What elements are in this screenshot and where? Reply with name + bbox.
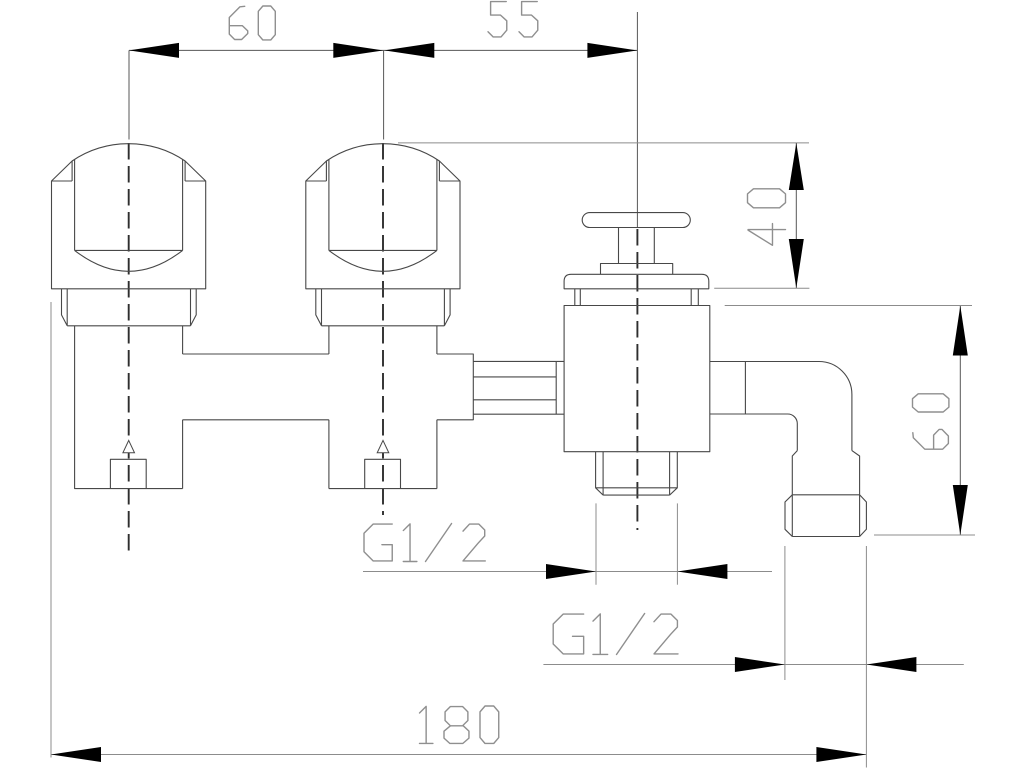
arrow 40 bottom: [789, 239, 804, 288]
arrow G12u left: [546, 564, 596, 579]
node centerline valve: [636, 229, 638, 530]
spout horizontal tube: [710, 361, 852, 450]
wire extension left spout fitting: [784, 546, 786, 680]
label 40 right rotated: [748, 189, 786, 246]
node flow arrow left: [123, 440, 135, 452]
wire extension top 60 right: [725, 305, 972, 307]
wire dim line 180: [51, 754, 866, 756]
wire extension top 40: [398, 142, 809, 144]
right handle shoulder detail: [306, 161, 460, 181]
arrow 60 right: [333, 43, 383, 58]
wire dim line 60 right: [959, 306, 961, 535]
wire extension mid 60/55: [383, 50, 385, 139]
wire extension left of 60: [128, 50, 130, 139]
right inlet inner rect: [365, 459, 401, 488]
right handle cup: [329, 160, 437, 251]
label G1/2 upper: [364, 524, 485, 562]
right handle body: [306, 144, 460, 289]
wire extension right of 55 / valve center: [636, 12, 638, 227]
left nut: [62, 289, 197, 326]
wire dim line 60-55 top: [129, 49, 637, 51]
arrow 60r bottom: [953, 485, 968, 535]
wire dim line 40: [795, 143, 797, 288]
label 55 top: [488, 2, 538, 37]
wire extension bottom 40: [714, 287, 809, 289]
right handle cup bottom arc: [329, 250, 437, 271]
right nut: [316, 289, 450, 326]
arrow G12l left: [735, 657, 785, 672]
manifold pipe: [183, 354, 329, 420]
wire extension right spout fitting / 180 right: [865, 546, 867, 768]
arrow G12l right: [866, 657, 916, 672]
arrow 60 left: [129, 43, 179, 58]
arrow 40 top: [789, 143, 804, 190]
arrow 55 right: [587, 43, 637, 58]
left inlet tube: [75, 326, 183, 489]
node centerline left handle: [128, 143, 130, 551]
spout hex fitting: [785, 495, 866, 537]
valve step: [601, 264, 673, 275]
left inlet inner rect: [110, 459, 146, 488]
label 60 right rotated: [913, 394, 949, 449]
node flow arrow right: [377, 440, 389, 452]
arrow 60r top: [953, 306, 968, 356]
left handle cup bottom arc: [75, 250, 183, 271]
label 180 bottom: [420, 706, 499, 743]
valve knob bar: [582, 213, 690, 228]
spout collar flare: [792, 451, 859, 495]
label G1/2 lower: [553, 614, 678, 655]
arrow G12u right: [677, 564, 727, 579]
right inlet tube: [329, 326, 437, 489]
pipe to valve: [473, 361, 564, 414]
wire extension bottom 60 right: [874, 534, 975, 536]
valve stem: [619, 228, 655, 264]
wire extension left 180: [50, 302, 52, 758]
arrow 180 right: [816, 747, 866, 762]
left handle body: [52, 144, 206, 289]
left handle shoulder detail: [52, 161, 206, 181]
arrow 55 left: [384, 43, 434, 58]
wire extension right stub: [676, 503, 678, 584]
valve body: [564, 306, 710, 452]
valve bottom stub: [596, 452, 678, 495]
valve plate: [564, 274, 709, 289]
wire dim line G1/2 upper: [363, 571, 772, 573]
wire extension left stub: [595, 503, 597, 584]
left handle cup: [75, 160, 183, 251]
node centerline right handle: [382, 143, 384, 515]
label 60 top: [229, 6, 275, 40]
arrow 180 left: [51, 747, 101, 762]
valve legs: [575, 289, 699, 306]
boss on right tube: [437, 354, 473, 420]
wire dim line G1/2 lower: [543, 664, 963, 666]
